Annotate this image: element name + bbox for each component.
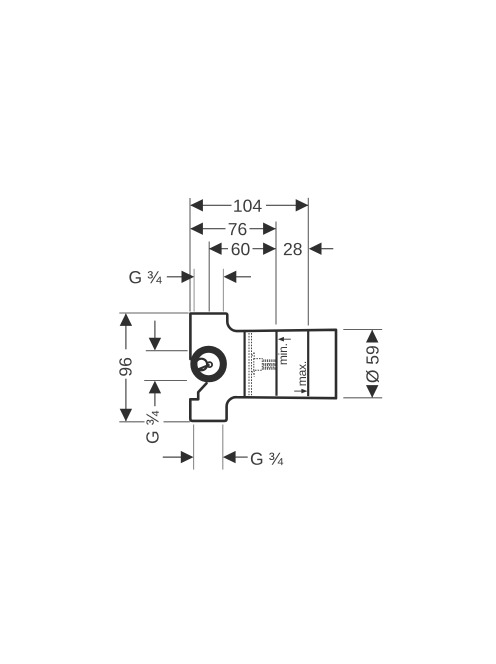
dimension 96 top arrow <box>120 313 132 326</box>
extension line 76/60 right end <box>275 222 277 325</box>
bottom G3/4 left arrow <box>163 456 182 458</box>
internal divider max <box>307 330 309 396</box>
extension line bottom thread left <box>193 425 195 470</box>
left G3/4 lower arrow pointing up <box>149 381 161 394</box>
extension line bottom thread right <box>222 425 224 470</box>
svg-text:G ¾: G ¾ <box>128 267 161 287</box>
extension line left G3/4 upper <box>146 350 188 352</box>
dimension 28 outside arrow <box>309 243 322 255</box>
slot line <box>197 365 210 370</box>
left G3/4 upper arrow pointing down <box>154 321 156 340</box>
svg-text:104: 104 <box>233 196 262 216</box>
extension line diameter 59 top <box>343 329 382 331</box>
extension line diameter 59 bottom <box>343 397 382 399</box>
extension line G3/4 thread left <box>193 269 195 312</box>
bottom G3/4 right arrow <box>223 451 236 463</box>
hidden screw shank dashed lines <box>262 363 275 365</box>
svg-text:max.: max. <box>295 361 309 386</box>
dimension 76 line <box>191 228 226 230</box>
svg-text:76: 76 <box>228 219 247 239</box>
dimension 60 line <box>210 248 229 250</box>
dimension 104 right arrow <box>296 199 309 211</box>
extension line left end of 60 <box>208 242 210 312</box>
extension line 96 top <box>119 312 188 314</box>
internal divider sleeve joint <box>244 331 246 396</box>
hidden screw hook top <box>252 352 255 356</box>
hidden screw thread hatch <box>264 359 275 369</box>
hidden screw head dashed rect <box>254 359 262 371</box>
side port ring <box>194 349 224 379</box>
svg-text:G ¾: G ¾ <box>250 449 283 469</box>
dimension 96 bottom arrow <box>120 409 132 422</box>
svg-text:Ø 59: Ø 59 <box>363 345 383 383</box>
max arrow <box>294 390 302 392</box>
diameter 59 bottom arrow <box>366 385 378 398</box>
dimension 60 left arrow <box>209 243 222 255</box>
hidden screw dotted column 2 <box>251 333 253 395</box>
spindle circle <box>196 359 208 371</box>
svg-text:28: 28 <box>283 239 302 259</box>
hidden screw dotted column 1 <box>248 333 250 395</box>
dimension 96 line <box>125 314 127 349</box>
hidden screw stem dashes <box>253 353 255 359</box>
valve body outline <box>190 314 336 421</box>
dimension 60 right arrow <box>263 243 276 255</box>
top G3/4 opposite arrow left-pointing <box>224 271 237 283</box>
svg-text:96: 96 <box>115 357 135 376</box>
extension line left G3/4 lower <box>144 380 187 382</box>
slot wedge <box>198 367 203 370</box>
hidden screw hook bottom <box>252 371 255 375</box>
internal divider min <box>275 330 277 395</box>
diameter 59 dimension line <box>371 330 373 342</box>
dimension 76 left arrow <box>190 223 203 235</box>
small circle <box>207 362 212 367</box>
top G3/4 leader line and arrow right-pointing <box>167 276 182 278</box>
extension line 104/28 right end <box>307 198 309 326</box>
extension line G3/4 thread right <box>222 269 224 312</box>
extension line 96 bottom (gap at rotated text) <box>119 421 144 423</box>
svg-text:G ¾: G ¾ <box>142 411 162 444</box>
diameter 59 top arrow <box>366 330 378 343</box>
svg-text:60: 60 <box>231 239 251 259</box>
dimension 104 line <box>191 204 232 206</box>
min arrow <box>278 337 284 342</box>
dimension 76 right arrow <box>263 223 276 235</box>
extension line left end of 104/76 <box>189 198 191 312</box>
dimension 104 left arrow <box>190 199 203 211</box>
svg-text:min.: min. <box>276 343 290 365</box>
